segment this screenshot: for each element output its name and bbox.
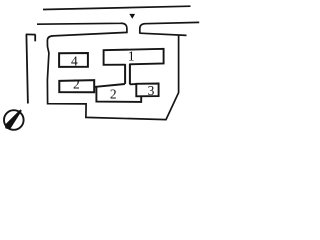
svg-text:1: 1 [128,48,135,63]
svg-text:4: 4 [71,54,78,69]
svg-text:2: 2 [73,77,80,92]
svg-text:3: 3 [148,83,155,98]
svg-text:2: 2 [110,87,117,102]
